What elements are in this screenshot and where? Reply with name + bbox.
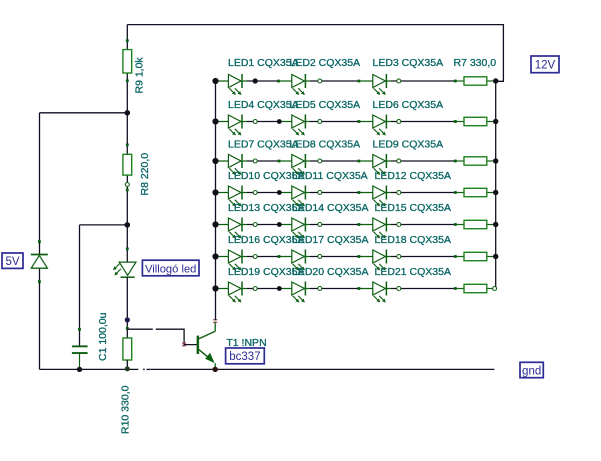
svg-text:LED7 CQX35A: LED7 CQX35A <box>228 139 299 151</box>
svg-text:bc337: bc337 <box>229 351 260 363</box>
svg-text:R9 1,0k: R9 1,0k <box>134 57 146 94</box>
resistor row 2 <box>464 117 487 125</box>
resistor row 5 <box>464 220 487 228</box>
wire row 1 <box>216 80 248 82</box>
node mid row 6 <box>253 255 257 259</box>
wire row 5 <box>216 224 248 226</box>
LED LED10 <box>228 186 241 199</box>
svg-text:R10 330,0: R10 330,0 <box>119 385 131 434</box>
resistor R9 <box>123 39 132 82</box>
node right bus row 3 <box>493 158 498 163</box>
pin right bus row 7 <box>493 287 497 291</box>
node mid row 4 <box>253 191 257 195</box>
wire row 3 <box>216 160 248 162</box>
LED LED6 <box>373 115 386 128</box>
svg-text:T1 !NPN: T1 !NPN <box>226 337 266 349</box>
wire row 7 <box>216 288 248 290</box>
svg-text:LED21 CQX35A: LED21 CQX35A <box>375 266 451 278</box>
node left bus row 6 <box>212 253 218 259</box>
node mid row 2 <box>253 120 257 124</box>
node left bus row 4 <box>212 189 218 195</box>
LED LED4 <box>228 115 241 128</box>
pin collector of T1 <box>213 319 217 320</box>
resistor row 6 <box>464 252 487 260</box>
svg-text:LED8 CQX35A: LED8 CQX35A <box>290 139 361 151</box>
LED LED18 <box>373 250 386 263</box>
node left bus row 1 <box>212 78 218 84</box>
LED LED13 <box>228 218 241 231</box>
LED LED16 <box>228 250 241 263</box>
LED LED20 <box>292 282 305 295</box>
svg-text:LED17 CQX35A: LED17 CQX35A <box>292 234 368 246</box>
diode D1 zener 5V <box>31 240 48 283</box>
wire LED matrix left bus <box>215 81 217 320</box>
wire row 2 <box>216 121 248 123</box>
svg-text:LED3 CQX35A: LED3 CQX35A <box>373 57 444 69</box>
LED LED7 <box>228 155 241 168</box>
node right bus row 2 <box>493 119 498 124</box>
label box Villogo led <box>142 260 199 276</box>
resistor R10 <box>123 327 132 370</box>
node mid row 5 <box>253 223 257 227</box>
LED LED5 <box>292 115 305 128</box>
LED LED12 <box>373 186 386 199</box>
svg-text:LED4 CQX35A: LED4 CQX35A <box>228 99 299 111</box>
wire blinking-LED branch upper <box>126 225 128 262</box>
node C1 ground junction <box>77 367 82 372</box>
LED LED19 <box>228 282 241 295</box>
LED LED14 <box>292 218 305 231</box>
svg-text:LED5 CQX35A: LED5 CQX35A <box>290 99 361 111</box>
pin marks row 1 <box>318 79 322 83</box>
node mid row 7 <box>253 287 257 291</box>
svg-text:12V: 12V <box>535 60 556 72</box>
svg-text:LED15 CQX35A: LED15 CQX35A <box>375 202 451 214</box>
svg-text:R8 220,0: R8 220,0 <box>139 153 151 196</box>
pin marks row 5 <box>318 223 322 227</box>
svg-text:LED2 CQX35A: LED2 CQX35A <box>290 57 361 69</box>
LED LED2 <box>292 75 305 88</box>
resistor row 3 <box>464 157 487 165</box>
pin base of T1 <box>182 343 186 344</box>
node base-wire junction <box>125 317 130 322</box>
wire 12V top rail <box>127 25 503 82</box>
LED LED1 <box>228 75 241 88</box>
node left bus row 7 <box>212 285 218 291</box>
svg-text:LED6 CQX35A: LED6 CQX35A <box>373 99 444 111</box>
pin marks row 4 <box>318 191 322 195</box>
wire R8 branch <box>126 113 128 225</box>
wire ground rail dash <box>143 369 145 371</box>
resistor row 1 <box>464 77 487 85</box>
LED LED9 <box>373 155 386 168</box>
node mid row 1 <box>253 78 258 83</box>
node mid row 3 <box>253 159 257 163</box>
transistor T1 <box>197 322 216 370</box>
svg-text:gnd: gnd <box>522 365 541 377</box>
node R10 ground junction <box>125 366 130 371</box>
pin marks row 3 <box>318 159 322 163</box>
wire junction to C1 branch <box>80 224 128 226</box>
pin marks row 7 <box>318 287 322 291</box>
LED LED3 <box>373 75 386 88</box>
node R9/R8 junction <box>125 110 131 116</box>
5V label box <box>2 253 23 268</box>
node left bus row 5 <box>212 221 218 227</box>
svg-text:LED20 CQX35A: LED20 CQX35A <box>292 266 368 278</box>
wire ground rail <box>40 368 139 370</box>
node R8/C1/LED junction <box>125 222 131 228</box>
resistor row 7 <box>464 284 487 292</box>
LED LED17 <box>292 250 305 263</box>
capacitor C1 <box>72 328 88 369</box>
node right bus row 5 <box>493 222 498 227</box>
resistor R8 <box>123 144 132 192</box>
wire C1 vertical <box>79 225 81 346</box>
label box bc337 <box>226 348 265 364</box>
gnd label box <box>520 362 543 377</box>
pin marks row 2 <box>318 120 322 124</box>
svg-text:R7 330,0: R7 330,0 <box>454 57 497 69</box>
wire base drive second segment <box>156 329 197 344</box>
svg-text:5V: 5V <box>5 256 19 268</box>
node left bus row 2 <box>212 118 218 124</box>
wire LED matrix right bus <box>495 81 497 288</box>
12V label box <box>531 56 559 73</box>
wire row 4 <box>216 192 248 194</box>
LED LED11 <box>292 186 305 199</box>
node left bus row 3 <box>212 158 218 164</box>
svg-text:Villogó led: Villogó led <box>145 263 196 275</box>
LED LED15 <box>373 218 386 231</box>
wire blinking-LED branch lower <box>126 277 128 338</box>
wire left rail vertical <box>39 113 41 370</box>
wire junction to left rail <box>40 112 128 114</box>
svg-text:LED11 CQX35A: LED11 CQX35A <box>292 170 368 182</box>
wire R9 branch vertical <box>126 25 128 113</box>
svg-text:LED14 CQX35A: LED14 CQX35A <box>292 202 368 214</box>
wire R10 to ground <box>126 360 128 369</box>
wire base drive horizontal <box>127 328 153 330</box>
svg-text:LED1 CQX35A: LED1 CQX35A <box>228 57 299 69</box>
LED LED21 <box>373 282 386 295</box>
node right bus row 4 <box>493 190 498 195</box>
pin marks row 6 <box>318 255 322 259</box>
resistor row 4 <box>464 188 487 196</box>
svg-text:C1 100,0u: C1 100,0u <box>97 312 109 361</box>
LED D2 Villogo led (down) <box>113 248 136 278</box>
svg-text:LED12 CQX35A: LED12 CQX35A <box>375 170 451 182</box>
LED LED8 <box>292 155 305 168</box>
node emitter ground junction <box>213 367 218 372</box>
svg-text:LED9 CQX35A: LED9 CQX35A <box>373 139 444 151</box>
wire row 6 <box>216 256 248 258</box>
node right bus row 6 <box>493 254 498 259</box>
svg-text:LED18 CQX35A: LED18 CQX35A <box>375 234 451 246</box>
node right bus row 1 <box>493 78 498 83</box>
wire ground rail right <box>150 368 494 370</box>
